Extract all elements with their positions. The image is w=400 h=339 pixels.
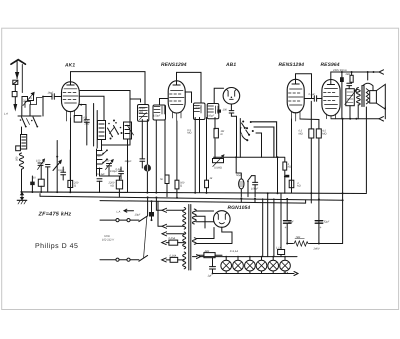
switch contact AF bbox=[247, 176, 251, 197]
svg-text:1kμF: 1kμF bbox=[96, 155, 102, 158]
resistor AK1 grid leak bbox=[74, 116, 82, 123]
output transformer secondary bbox=[366, 89, 369, 104]
speaker bbox=[370, 84, 386, 119]
capacitor antenna 1kpF bbox=[43, 94, 61, 99]
electrolytic 32uF first bbox=[284, 199, 292, 244]
svg-text:0,25A: 0,25A bbox=[169, 237, 176, 240]
wire rail C to taps bbox=[158, 201, 162, 226]
underline 7k bbox=[295, 238, 305, 240]
wire lamp bottom bbox=[213, 271, 295, 274]
wire AK1 osc line bbox=[129, 99, 131, 145]
wire RENS1 grid cap bbox=[177, 72, 202, 102]
coil L1 bbox=[21, 135, 27, 150]
wire diode load bbox=[239, 119, 241, 158]
tube RES964 bbox=[322, 80, 340, 119]
svg-text:0,1μF: 0,1μF bbox=[309, 93, 316, 96]
wire detector loop B bbox=[254, 127, 274, 157]
svg-text:MΩ: MΩ bbox=[322, 132, 326, 135]
wire 2200ohm bbox=[118, 176, 120, 197]
padder switch cluster bbox=[97, 149, 108, 176]
wire transformer feet bbox=[358, 72, 368, 193]
node LA arrow bbox=[14, 105, 17, 110]
svg-text:4kΩ: 4kΩ bbox=[205, 250, 210, 253]
trimmer capacitor T1 bbox=[38, 159, 45, 170]
mains lead 2 bbox=[100, 259, 139, 261]
svg-text:10μF: 10μF bbox=[135, 214, 141, 217]
svg-text:110μF: 110μF bbox=[125, 160, 133, 163]
svg-text:MΩ: MΩ bbox=[299, 132, 303, 135]
capacitor 0,1uF input bbox=[61, 172, 66, 175]
antenna bbox=[11, 60, 25, 93]
IF transformer 1 secondary bbox=[153, 105, 166, 120]
svg-text:0,1μF: 0,1μF bbox=[116, 168, 123, 171]
wire 1Mohm bbox=[214, 118, 216, 159]
svg-text:L.A: L.A bbox=[4, 112, 8, 115]
HV secondary winding bbox=[192, 209, 213, 228]
resistor 500ohm bbox=[175, 180, 179, 189]
mains switch 2 bbox=[139, 255, 148, 261]
electrolytic 50uF bbox=[236, 173, 244, 197]
wire lamp top line bbox=[201, 256, 298, 258]
wire AK1 cathode bbox=[70, 118, 72, 193]
capacitor coupling 0,1uF bbox=[314, 96, 322, 102]
svg-text:L.A: L.A bbox=[117, 210, 121, 213]
wire field coil loop bbox=[305, 200, 307, 203]
svg-text:kΩ: kΩ bbox=[288, 165, 291, 168]
svg-text:RENS1294: RENS1294 bbox=[279, 62, 305, 68]
wire IFT1 feet bbox=[156, 120, 165, 193]
svg-text:+: + bbox=[285, 226, 287, 230]
svg-text:0,1μF: 0,1μF bbox=[58, 169, 65, 172]
junction AF bbox=[235, 156, 237, 158]
wire transformer top arc bbox=[363, 83, 373, 86]
wire heater link bbox=[300, 118, 319, 121]
resistor 2200ohm bbox=[116, 180, 122, 189]
wire AF line bbox=[214, 156, 279, 158]
wire RENS2 feet bbox=[292, 101, 319, 192]
svg-text:150: 150 bbox=[36, 160, 41, 163]
transformer tap arrow 4 bbox=[162, 241, 185, 245]
mains switch 1 bbox=[139, 216, 148, 222]
wire RENS1 anode bbox=[185, 92, 192, 103]
wire 250ohm bbox=[69, 150, 71, 193]
wire AK1 anode bbox=[80, 91, 141, 103]
tube RENS1294 first bbox=[168, 81, 185, 121]
wire switch to rail bbox=[148, 197, 162, 215]
antenna coupling box bbox=[13, 80, 18, 84]
wire IFT2 to AB1 bbox=[214, 88, 223, 103]
wire AB1 to pot bbox=[231, 113, 236, 157]
svg-text:Philips D 45: Philips D 45 bbox=[35, 242, 78, 250]
svg-text:AK1: AK1 bbox=[64, 63, 75, 69]
svg-text:1,1A: 1,1A bbox=[276, 246, 282, 249]
svg-text:Ω: Ω bbox=[180, 184, 182, 187]
oscillator switch contacts bbox=[108, 122, 122, 137]
resistor AF right bbox=[278, 157, 287, 193]
oscillator coil O1 bbox=[98, 121, 106, 140]
capacitor 10kpF bbox=[252, 176, 258, 197]
junction dots output bbox=[341, 71, 375, 120]
capacitor blocking bbox=[140, 120, 145, 169]
svg-text:240V: 240V bbox=[313, 247, 320, 250]
detector switch wafer bbox=[240, 120, 253, 141]
junction dots power bbox=[147, 196, 158, 221]
IF transformer 1 primary bbox=[138, 105, 149, 122]
svg-text:160: 160 bbox=[105, 160, 110, 163]
capacitor 1uF bbox=[210, 258, 216, 274]
terminal arrow lamp left bbox=[193, 255, 201, 259]
junction dots bus bbox=[21, 191, 344, 201]
IF transformer 2 secondary bbox=[207, 104, 219, 119]
svg-text:102-212 V: 102-212 V bbox=[102, 239, 114, 242]
wire tuning node bbox=[57, 141, 63, 193]
wire 500ohm foot bbox=[176, 189, 178, 197]
wire rail C corner bbox=[241, 198, 255, 202]
svg-text:230V 32mA: 230V 32mA bbox=[332, 69, 347, 72]
svg-text:ZF=475 kHz: ZF=475 kHz bbox=[38, 211, 72, 217]
capacitor IFT2 foot bbox=[217, 110, 221, 113]
svg-text:150pF: 150pF bbox=[194, 107, 202, 110]
capacitor 10uF mains bbox=[149, 200, 154, 220]
wire resistor bbox=[40, 165, 42, 192]
mains transformer core bbox=[189, 205, 191, 271]
capacitor heater line bbox=[285, 175, 289, 178]
svg-text:5kΩ: 5kΩ bbox=[138, 111, 143, 114]
capacitor osc foot bbox=[97, 179, 102, 193]
wire detector loop A bbox=[252, 122, 277, 158]
wire rail B hook bbox=[39, 194, 41, 197]
resistor 50ohm bbox=[38, 179, 44, 186]
potentiometer 0,5Mohm bbox=[213, 155, 225, 167]
svg-text:050: 050 bbox=[16, 156, 19, 161]
terminal arrow top right bbox=[379, 70, 384, 74]
wire AB1 cathode down bbox=[230, 104, 232, 110]
resistor 0,5Mohm bbox=[309, 129, 314, 138]
junction 240 bbox=[286, 243, 288, 245]
variable capacitor tuning bbox=[53, 160, 61, 170]
padder trimmer bbox=[106, 160, 114, 170]
wire detector loop C bbox=[256, 133, 262, 157]
wire antenna lead bbox=[14, 84, 16, 104]
svg-text:Ω: Ω bbox=[221, 133, 223, 136]
IF transformer 2 primary bbox=[193, 103, 205, 120]
wire padder bbox=[100, 167, 122, 179]
svg-text:50μF: 50μF bbox=[236, 174, 242, 177]
trimmer capacitor T2 bbox=[46, 165, 51, 193]
svg-text:+: + bbox=[320, 226, 322, 230]
wire AF down bbox=[236, 157, 277, 192]
resistor 1Mohm bbox=[214, 128, 218, 138]
svg-text:100: 100 bbox=[223, 109, 228, 112]
svg-text:3·0,1μF: 3·0,1μF bbox=[96, 173, 105, 176]
tube AK1 bbox=[62, 82, 80, 121]
svg-text:0,1A: 0,1A bbox=[283, 271, 289, 274]
wire RENS1 cathode bbox=[176, 121, 178, 180]
wire RENS2 anode to cap bbox=[305, 98, 314, 100]
electrolytic trimmer disc bbox=[144, 120, 151, 193]
svg-text:MΩ: MΩ bbox=[187, 132, 191, 135]
capacitor small box L1 bbox=[16, 146, 21, 151]
capacitor AB1 100pF bbox=[229, 111, 234, 113]
capacitor 2k branch bbox=[84, 119, 89, 121]
wire osc feed pair bbox=[94, 104, 98, 149]
resistor 4,5Mohm bbox=[316, 129, 321, 138]
dial lamps bbox=[221, 257, 291, 271]
ground bus bbox=[21, 192, 366, 194]
wire AK1 screen bbox=[79, 96, 104, 120]
mains connector 2 bbox=[116, 258, 130, 261]
antenna series box bbox=[12, 92, 17, 97]
svg-text:7kΩ: 7kΩ bbox=[296, 236, 301, 239]
bus rail C bbox=[100, 201, 306, 204]
LA arrow bbox=[124, 209, 134, 212]
resistor 250ohm bbox=[68, 180, 73, 187]
svg-text:kΩ: kΩ bbox=[111, 184, 114, 187]
resistor screen 2k bbox=[350, 72, 353, 82]
svg-text:25: 25 bbox=[22, 100, 26, 103]
terminal arrow bottom right bbox=[379, 117, 384, 121]
wire resistor feet bbox=[311, 138, 319, 244]
wire AK1 grid cap bbox=[71, 72, 146, 105]
tube RGN1054 bbox=[214, 211, 231, 228]
wire IFT2 feet bbox=[195, 118, 199, 193]
svg-text:0,16A: 0,16A bbox=[170, 255, 177, 258]
electrolytic 32uF second bbox=[315, 221, 323, 224]
mains connector 1 bbox=[116, 219, 130, 222]
output transformer core bbox=[362, 86, 364, 107]
resistor 4k bbox=[197, 253, 222, 258]
svg-text:2kΩ: 2kΩ bbox=[345, 73, 351, 76]
wire coil to bus bbox=[21, 127, 23, 193]
tube AB1 bbox=[223, 88, 240, 105]
svg-text:150pF: 150pF bbox=[153, 115, 161, 118]
heater drop wires bbox=[263, 193, 274, 256]
wire rectifier output bbox=[218, 227, 232, 243]
junction bbox=[56, 156, 58, 158]
oscillator coil O2 bbox=[110, 120, 134, 140]
resistor 0,25A bbox=[169, 240, 178, 245]
svg-text:32μF: 32μF bbox=[288, 221, 294, 224]
junction dots lamps bbox=[212, 256, 286, 275]
wire 1k bbox=[206, 118, 208, 193]
wire output bottom line bbox=[331, 118, 380, 120]
wire input bbox=[22, 97, 43, 117]
svg-text:0,5MΩ: 0,5MΩ bbox=[214, 167, 222, 170]
variable resistor tone bbox=[345, 89, 357, 119]
tube RENS1294 second bbox=[287, 79, 304, 121]
svg-text:150pF: 150pF bbox=[207, 115, 215, 118]
svg-text:25: 25 bbox=[28, 97, 32, 100]
output transformer primary bbox=[357, 88, 361, 106]
switch gang link bbox=[144, 217, 147, 258]
filament winding bbox=[192, 228, 218, 245]
svg-text:STW: STW bbox=[104, 235, 110, 238]
resistor 1k IFT bbox=[205, 180, 209, 188]
transformer tap arrow 3 bbox=[162, 232, 184, 236]
transformer tap arrow 1 bbox=[162, 208, 184, 212]
svg-text:10kpF: 10kpF bbox=[251, 188, 259, 191]
resistor 1k cathode bbox=[289, 180, 294, 188]
svg-text:150pF: 150pF bbox=[138, 107, 146, 110]
svg-text:RENS1294: RENS1294 bbox=[161, 62, 187, 68]
capacitor small bbox=[30, 182, 35, 186]
mains lead 1 bbox=[100, 219, 139, 221]
capacitor padder 0,1uF bbox=[119, 171, 124, 173]
svg-text:1kpF: 1kpF bbox=[48, 92, 54, 95]
wire IFT1 to grid bbox=[160, 99, 168, 106]
wire osc bbox=[102, 139, 131, 192]
resistor 5k bbox=[165, 175, 169, 184]
wire 240V line bbox=[287, 243, 342, 245]
capacitor screen filled bbox=[340, 72, 344, 119]
input coil switch bbox=[22, 93, 42, 108]
wire 5k foot bbox=[166, 184, 168, 197]
wire cap bbox=[31, 176, 33, 193]
bus rail B bbox=[40, 196, 343, 200]
svg-text:RGN1054: RGN1054 bbox=[228, 205, 251, 211]
coil L2 spring bbox=[19, 153, 23, 170]
band switch wafer bbox=[18, 116, 41, 128]
capacitor tone bbox=[347, 82, 352, 88]
resistor 7k wirewound bbox=[293, 241, 310, 246]
svg-text:kΩ: kΩ bbox=[297, 185, 300, 188]
svg-text:1μF: 1μF bbox=[208, 275, 213, 278]
transformer tap arrow 5 bbox=[162, 258, 185, 262]
svg-text:2kΩ: 2kΩ bbox=[84, 122, 90, 125]
transformer tap arrow 2 bbox=[162, 224, 184, 228]
fuse 1,1A bbox=[278, 193, 285, 256]
svg-text:AB1: AB1 bbox=[225, 62, 236, 68]
svg-text:Ω: Ω bbox=[74, 184, 76, 187]
svg-text:32μF: 32μF bbox=[324, 221, 330, 224]
resistor 0,16A bbox=[170, 257, 178, 262]
ground symbol bbox=[17, 193, 27, 205]
mains transformer primary winding bbox=[183, 208, 186, 269]
wire AK1 anode branch bbox=[80, 105, 87, 120]
wire RENS2 grid cap bbox=[296, 74, 312, 99]
terminal arrow lamp right bbox=[294, 272, 298, 276]
wire RES964 grid top bbox=[331, 72, 380, 85]
svg-text:5×1,1A: 5×1,1A bbox=[230, 250, 239, 253]
wire B+ right drop bbox=[342, 119, 344, 244]
svg-text:RES964: RES964 bbox=[321, 62, 340, 68]
